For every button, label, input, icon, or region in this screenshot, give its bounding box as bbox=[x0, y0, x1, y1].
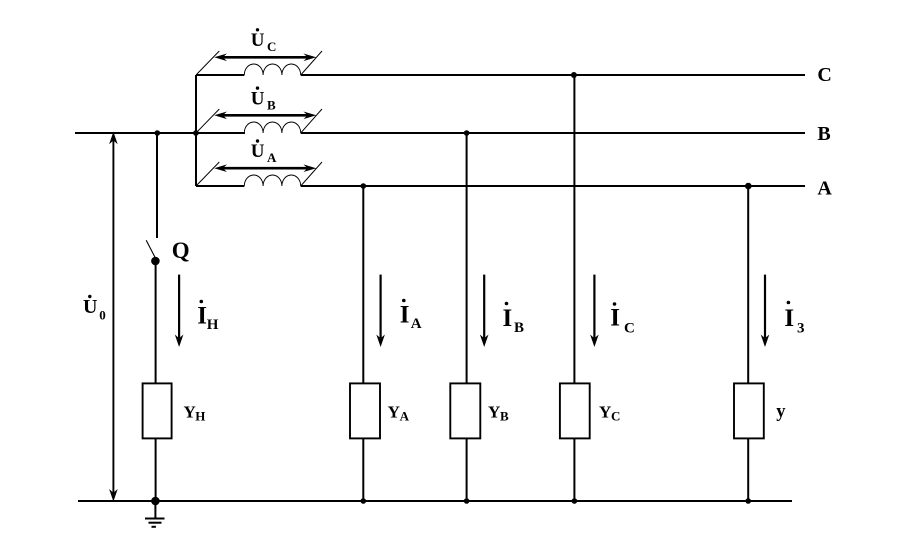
admittance YA box bbox=[350, 383, 380, 438]
node rail-YC junction bbox=[572, 498, 578, 504]
svg-text:C: C bbox=[611, 408, 620, 423]
svg-text:I: I bbox=[610, 305, 620, 332]
wire neutral branch lower bbox=[155, 438, 157, 501]
wire load branch B lower bbox=[466, 438, 468, 501]
ground bbox=[145, 501, 165, 527]
wire earthing branch lower bbox=[747, 438, 749, 501]
admittance YH box bbox=[143, 383, 172, 438]
svg-text:C: C bbox=[624, 321, 635, 337]
wire load branch B bbox=[466, 133, 468, 384]
wire load branch C bbox=[573, 75, 575, 384]
svg-text:y: y bbox=[776, 402, 786, 422]
svg-text:0: 0 bbox=[99, 308, 106, 323]
wire neutral rail (bottom) bbox=[78, 500, 792, 502]
wire phase B line left segment bbox=[75, 132, 245, 134]
wire phase B line right segment bbox=[301, 132, 805, 134]
wire neutral branch upper bbox=[156, 133, 158, 238]
voltage arrow UC (double-headed) bbox=[214, 54, 316, 62]
svg-text:I: I bbox=[784, 305, 794, 332]
voltage arrow UA (double-headed) bbox=[214, 164, 316, 172]
label I_H bbox=[197, 300, 219, 333]
svg-text:U: U bbox=[251, 141, 265, 162]
current arrow IA bbox=[376, 275, 385, 347]
admittance y box bbox=[734, 383, 764, 438]
label U_B bbox=[251, 86, 276, 112]
svg-text:U: U bbox=[83, 296, 97, 318]
label I_A bbox=[400, 299, 422, 332]
svg-text:3: 3 bbox=[797, 321, 805, 337]
svg-text:Y: Y bbox=[599, 402, 611, 421]
wire winding common bus (vertical) bbox=[195, 75, 197, 186]
node switch lower contact bbox=[151, 257, 160, 266]
label U_A bbox=[251, 139, 277, 165]
svg-text:Q: Q bbox=[172, 238, 190, 263]
wire neutral branch middle bbox=[155, 261, 157, 384]
node A-load junction bbox=[361, 183, 367, 189]
tick slash right of winding B bbox=[301, 109, 322, 133]
voltage arrow U0 (double-headed) bbox=[109, 132, 118, 502]
svg-text:Y: Y bbox=[488, 402, 500, 421]
node rail-earthing junction bbox=[745, 498, 751, 504]
admittance YC box bbox=[560, 383, 590, 438]
svg-text:B: B bbox=[514, 320, 524, 336]
label Y_C bbox=[599, 402, 620, 423]
svg-text:I: I bbox=[503, 305, 513, 332]
current arrow IH bbox=[175, 275, 184, 347]
svg-text:H: H bbox=[207, 317, 219, 333]
inductor winding C bbox=[244, 64, 300, 75]
node rail-neutral-ground junction bbox=[151, 497, 160, 506]
svg-text:A: A bbox=[817, 178, 832, 200]
svg-text:C: C bbox=[817, 64, 831, 86]
voltage arrow UB (double-headed) bbox=[214, 112, 316, 120]
svg-text:A: A bbox=[267, 150, 277, 165]
current arrow IC bbox=[590, 275, 599, 347]
node C-load junction bbox=[571, 72, 577, 78]
svg-text:I: I bbox=[400, 301, 410, 328]
wire load branch A bbox=[362, 186, 364, 384]
node rail-YB junction bbox=[464, 498, 470, 504]
svg-text:H: H bbox=[195, 408, 205, 423]
inductor winding B bbox=[244, 122, 300, 133]
wire earthing branch bbox=[747, 186, 749, 384]
label Y_H bbox=[184, 402, 206, 423]
node rail-YA junction bbox=[361, 498, 367, 504]
label I_3 bbox=[784, 301, 804, 337]
node B-winding bus junction bbox=[193, 130, 199, 136]
svg-text:B: B bbox=[500, 408, 509, 423]
wire load branch C lower bbox=[573, 438, 575, 501]
wire load branch A lower bbox=[362, 438, 364, 501]
svg-text:B: B bbox=[267, 97, 276, 112]
node A-earthing junction bbox=[745, 183, 752, 190]
wire phase C line right segment bbox=[301, 74, 805, 76]
label Y_A bbox=[388, 402, 410, 423]
inductor winding A bbox=[244, 175, 300, 186]
svg-text:Y: Y bbox=[184, 402, 196, 421]
label U_C bbox=[251, 28, 277, 54]
svg-text:A: A bbox=[400, 408, 410, 423]
label Y_B bbox=[488, 402, 509, 423]
svg-text:C: C bbox=[267, 39, 276, 54]
svg-text:U: U bbox=[251, 88, 265, 109]
tick slash left of winding C bbox=[196, 51, 219, 75]
admittance YB box bbox=[450, 383, 480, 438]
wire phase A line left segment bbox=[196, 185, 244, 187]
switch Q blade bbox=[146, 240, 156, 258]
svg-text:I: I bbox=[197, 303, 207, 330]
svg-text:B: B bbox=[817, 123, 830, 145]
label I_B bbox=[503, 302, 525, 336]
tick slash right of winding A bbox=[301, 162, 322, 186]
current arrow I3 bbox=[761, 275, 770, 347]
label I_C bbox=[610, 302, 635, 336]
svg-text:U: U bbox=[251, 30, 265, 51]
node B-load junction bbox=[464, 130, 470, 136]
wire phase C line left segment bbox=[196, 74, 244, 76]
current arrow IB bbox=[480, 275, 489, 347]
tick slash left of winding A bbox=[196, 162, 219, 186]
svg-text:A: A bbox=[411, 316, 422, 332]
node B-neutral junction bbox=[155, 130, 161, 136]
tick slash right of winding C bbox=[301, 51, 322, 75]
svg-text:Y: Y bbox=[388, 402, 400, 421]
label U_0 bbox=[83, 295, 106, 323]
tick slash left of winding B bbox=[196, 109, 219, 133]
wire phase A line right segment bbox=[301, 185, 805, 187]
